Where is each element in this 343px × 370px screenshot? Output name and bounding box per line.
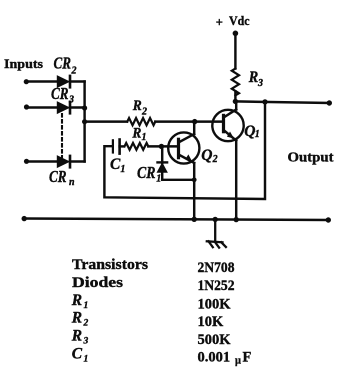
svg-text:2: 2: [141, 107, 147, 118]
wire R3 to collector node: [234, 91, 236, 101]
node Q2 base junction: [159, 144, 164, 149]
wire dashed (more inputs): [61, 114, 63, 157]
label R1: [132, 126, 147, 143]
diode CR1: [158, 146, 195, 179]
svg-text:μ: μ: [235, 356, 241, 367]
svg-text:1: 1: [120, 164, 125, 175]
svg-text:100K: 100K: [198, 296, 232, 312]
svg-text:CR: CR: [49, 167, 67, 186]
ground: [207, 219, 226, 247]
node ground-rail junction: [213, 217, 218, 222]
label R2: [132, 98, 147, 118]
node feedback riser junction: [262, 99, 267, 104]
node Vdc terminal: [233, 31, 239, 37]
svg-text:CR: CR: [51, 84, 69, 103]
label CR1: [137, 163, 161, 184]
node bus-CR3 junction: [82, 105, 87, 110]
svg-text:2: 2: [71, 66, 77, 77]
svg-text:3: 3: [257, 78, 263, 89]
svg-text:1: 1: [142, 132, 147, 143]
node Q1 emitter-rail junction: [234, 217, 239, 222]
transistor Q2: [168, 122, 199, 220]
svg-text:Diodes: Diodes: [72, 275, 123, 291]
wire input 2: [26, 106, 58, 108]
svg-text:1: 1: [84, 301, 89, 311]
svg-text:F: F: [243, 350, 252, 366]
svg-text:2: 2: [212, 154, 218, 165]
wire feedback box left edge: [104, 102, 265, 199]
svg-text:R: R: [71, 328, 82, 345]
svg-text:R: R: [248, 69, 258, 86]
label C1: [110, 156, 125, 175]
resistor R1: [125, 143, 149, 150]
label R3: [248, 69, 263, 89]
node collector-output junction: [233, 99, 238, 104]
svg-text:1: 1: [156, 173, 161, 184]
label +Vdc: [216, 13, 250, 29]
svg-text:C: C: [72, 345, 83, 362]
diode CR2: [58, 76, 85, 87]
svg-text:Output: Output: [288, 150, 334, 165]
wire input 1: [26, 80, 58, 82]
wire input n: [26, 160, 58, 162]
node input 2 terminal: [24, 104, 29, 109]
resistor R3: [232, 69, 239, 96]
svg-text:2: 2: [83, 319, 89, 329]
svg-text:CR: CR: [137, 163, 156, 182]
label CRn: [49, 167, 75, 188]
svg-text:CR: CR: [54, 53, 72, 72]
node Q2 emitter-rail junction: [192, 217, 197, 222]
svg-text:R: R: [71, 292, 82, 309]
svg-text:Vdc: Vdc: [229, 13, 250, 28]
wire R1 to Q2 base: [148, 145, 178, 147]
node CR1 to Q2 emitter junction: [192, 177, 197, 182]
svg-text:3: 3: [68, 94, 74, 105]
node rail right terminal: [326, 217, 331, 222]
resistor R2: [127, 118, 155, 125]
node Q2 collector junction: [192, 119, 197, 124]
label CR2: [54, 53, 77, 76]
svg-text:1: 1: [84, 355, 89, 365]
svg-text:500K: 500K: [198, 332, 232, 348]
capacitor C1: [113, 140, 124, 154]
diode CR3: [58, 102, 85, 113]
node input 1 terminal: [24, 79, 29, 84]
svg-text:C: C: [110, 156, 121, 173]
label CR3: [51, 84, 74, 105]
wire R2 to Q1 base: [155, 120, 223, 122]
label Q2: [201, 147, 217, 165]
transistor Q1: [212, 101, 243, 219]
svg-text:R: R: [132, 98, 142, 114]
svg-text:Inputs: Inputs: [4, 56, 43, 71]
svg-text:Q: Q: [201, 147, 212, 164]
node output top terminal: [327, 100, 332, 105]
label Q1: [244, 123, 259, 140]
svg-text:10K: 10K: [198, 314, 225, 330]
wire diode bus: [83, 82, 85, 162]
svg-text:1N252: 1N252: [198, 278, 235, 294]
wire Vdc to R3: [234, 33, 236, 68]
wire bottom rail: [24, 219, 329, 221]
svg-text:0.001: 0.001: [198, 350, 231, 366]
wire output top line: [235, 101, 329, 103]
svg-text:R: R: [71, 310, 82, 327]
table: components list: [71, 257, 252, 366]
svg-text:1: 1: [255, 129, 260, 140]
wire bus to R2: [85, 120, 127, 122]
node rail left terminal: [22, 216, 27, 221]
svg-text:3: 3: [83, 337, 89, 347]
node input n terminal: [24, 159, 29, 164]
node bus tap to R2: [82, 119, 87, 124]
svg-text:Transistors: Transistors: [72, 257, 148, 273]
svg-text:n: n: [69, 177, 75, 188]
svg-text:2N708: 2N708: [198, 260, 235, 276]
svg-text:R: R: [132, 126, 142, 142]
diode CRn: [58, 156, 85, 167]
svg-text:+: +: [216, 16, 223, 30]
